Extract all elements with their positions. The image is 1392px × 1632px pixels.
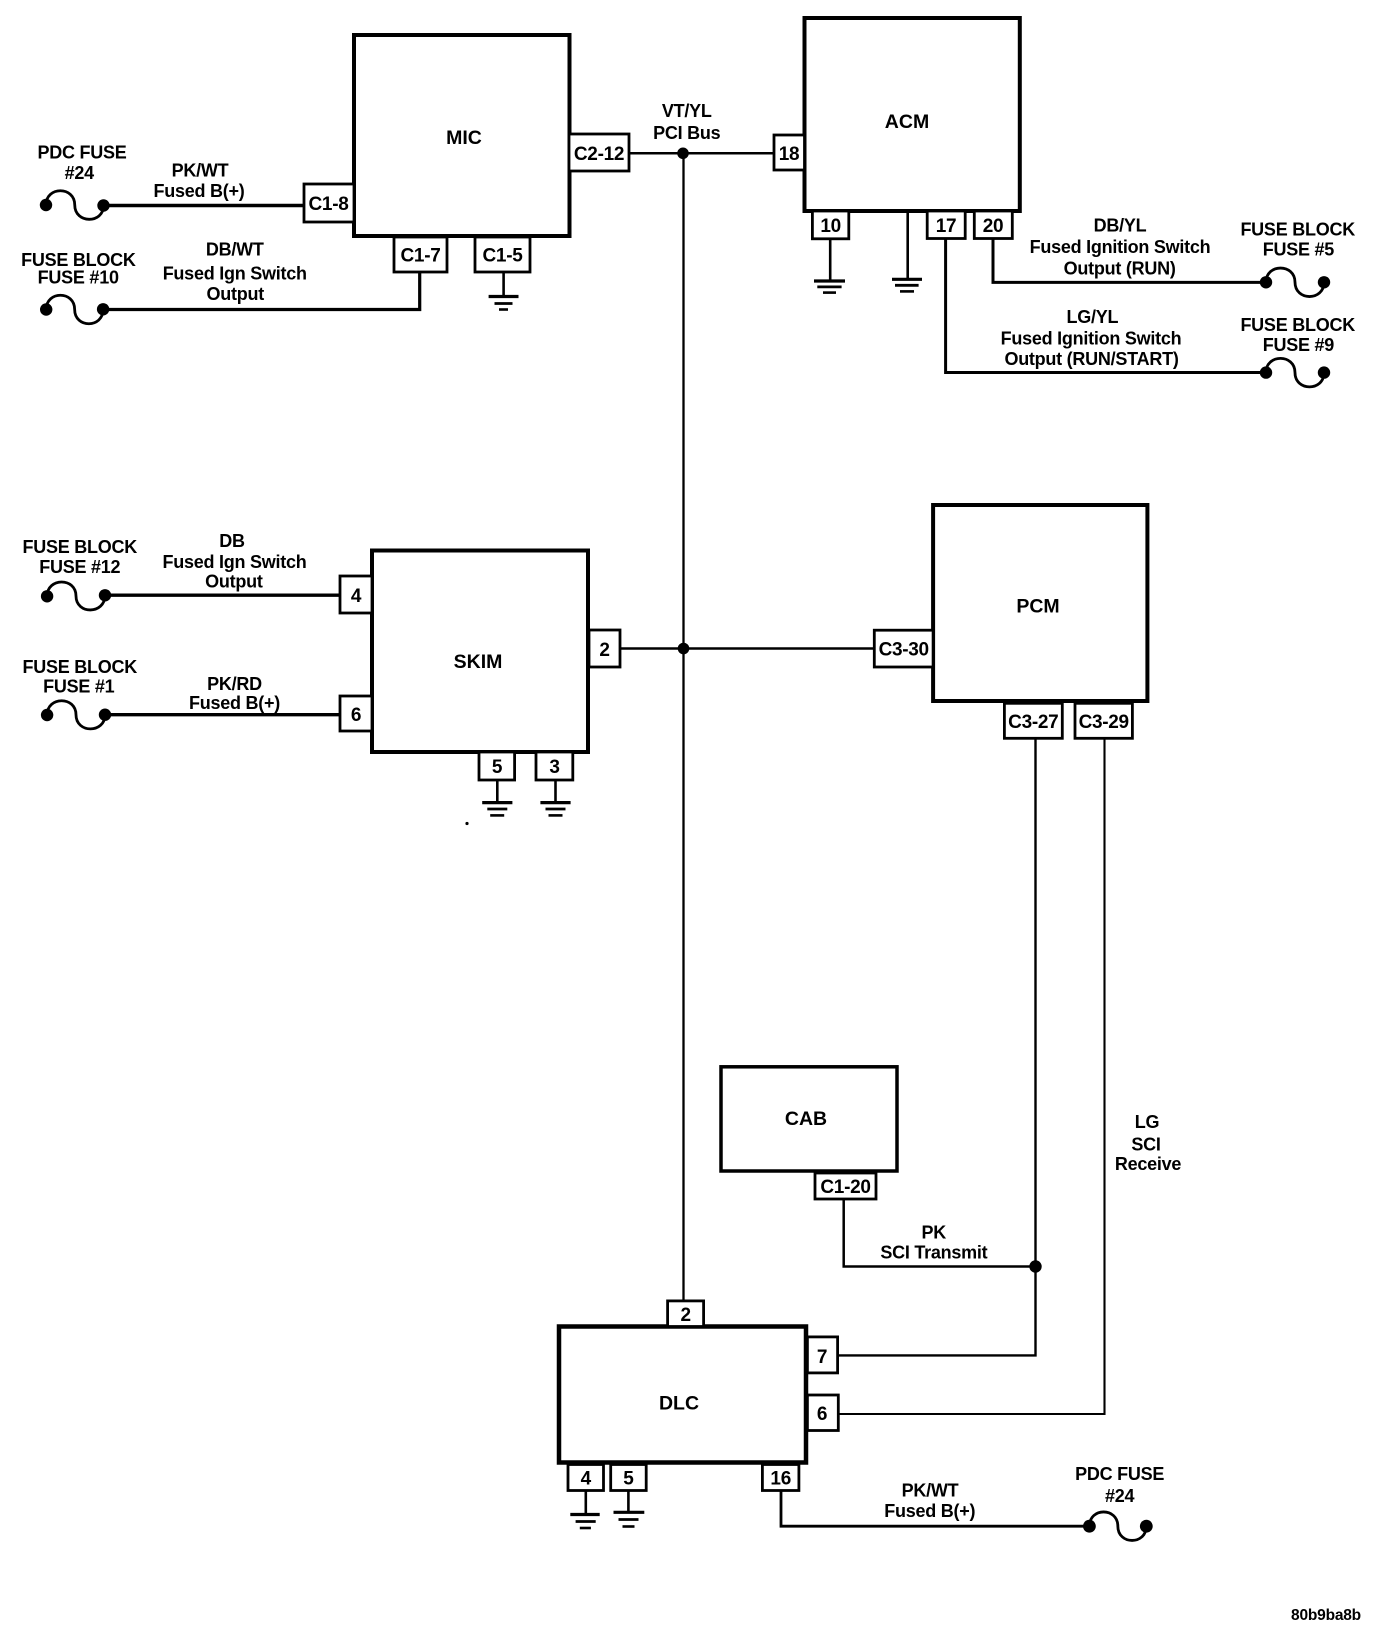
- label PDC FUSE 24 bottom: [1075, 1464, 1164, 1506]
- wire fuse 12 to SKIM pin 4: [105, 594, 340, 597]
- svg-text:PK/RD: PK/RD: [207, 674, 262, 694]
- svg-text:PCM: PCM: [1016, 596, 1059, 618]
- pin 2 of DLC: [668, 1301, 704, 1327]
- svg-text:DB/WT: DB/WT: [206, 240, 264, 260]
- connector C1-8: [304, 184, 354, 222]
- label LG/YL Fused Ignition Switch Output (RUN/START): [1001, 307, 1182, 369]
- svg-text:PDC FUSE: PDC FUSE: [37, 143, 126, 163]
- connector C1-5: [475, 237, 530, 272]
- pin 17: [927, 211, 965, 239]
- label PK/WT Fused B(+) top: [153, 160, 244, 201]
- label DB/WT Fused Ign Switch Output: [163, 240, 307, 305]
- pin 6: [340, 696, 372, 731]
- fuse block 10: [40, 295, 109, 323]
- svg-text:Fused B(+): Fused B(+): [189, 693, 280, 713]
- svg-text:17: 17: [936, 216, 957, 237]
- svg-text:Fused Ignition Switch: Fused Ignition Switch: [1001, 329, 1182, 349]
- wire fuse 1 to SKIM pin 6: [105, 713, 340, 716]
- svg-text:Fused Ign Switch: Fused Ign Switch: [163, 264, 307, 284]
- svg-text:Output (RUN/START): Output (RUN/START): [1004, 349, 1178, 369]
- module SKIM: [372, 551, 588, 753]
- svg-text:FUSE #9: FUSE #9: [1263, 335, 1335, 355]
- fuse PDC 24 bottom: [1083, 1512, 1153, 1541]
- connector C3-30: [874, 630, 933, 667]
- connector C3-29: [1075, 703, 1132, 738]
- svg-text:LG/YL: LG/YL: [1067, 307, 1119, 327]
- label FUSE BLOCK FUSE 5: [1240, 220, 1355, 260]
- connector C2-12: [569, 134, 629, 171]
- junction node at PCI bus top: [677, 148, 689, 160]
- svg-text:FUSE #12: FUSE #12: [39, 557, 120, 577]
- svg-text:Fused B(+): Fused B(+): [884, 1501, 975, 1521]
- svg-text:MIC: MIC: [446, 127, 482, 149]
- svg-text:FUSE #5: FUSE #5: [1263, 240, 1335, 260]
- label PK/RD Fused B(+): [189, 674, 280, 713]
- wire PCI bus vertical: [682, 153, 684, 1301]
- svg-text:#24: #24: [65, 163, 95, 183]
- svg-text:2: 2: [680, 1305, 690, 1326]
- svg-text:4: 4: [351, 586, 362, 607]
- svg-text:C1-8: C1-8: [309, 194, 349, 215]
- label DB Fused Ign Switch Output: [162, 531, 306, 592]
- svg-text:DB/YL: DB/YL: [1094, 216, 1147, 236]
- label FUSE BLOCK FUSE 10: [21, 250, 136, 288]
- svg-text:FUSE BLOCK: FUSE BLOCK: [1240, 315, 1355, 335]
- svg-text:DLC: DLC: [659, 1393, 699, 1415]
- svg-text:FUSE BLOCK: FUSE BLOCK: [23, 657, 138, 677]
- wire fuse 10 to C1-7: [103, 272, 420, 310]
- svg-text:6: 6: [817, 1404, 827, 1425]
- svg-text:4: 4: [581, 1469, 592, 1490]
- label LG SCI Receive: [1115, 1112, 1182, 1174]
- svg-text:10: 10: [820, 216, 841, 237]
- pin 7: [807, 1337, 837, 1373]
- scan speck: [465, 822, 468, 825]
- label PK/WT Fused B(+) bottom: [884, 1481, 975, 1521]
- module PCM: [933, 505, 1147, 701]
- svg-text:SCI Transmit: SCI Transmit: [880, 1242, 987, 1262]
- pin 5 of DLC: [611, 1465, 647, 1491]
- svg-text:6: 6: [351, 705, 361, 726]
- svg-text:Output: Output: [207, 284, 265, 304]
- pin 10: [812, 211, 848, 239]
- label FUSE BLOCK FUSE 9: [1240, 315, 1355, 355]
- fuse block 9: [1260, 358, 1330, 387]
- module DLC: [559, 1327, 806, 1463]
- svg-text:C1-20: C1-20: [820, 1177, 870, 1198]
- svg-text:CAB: CAB: [785, 1108, 827, 1130]
- fuse block 12: [41, 582, 111, 610]
- wire SKIM pin 2 to PCM C3-30: [620, 647, 874, 650]
- wire ACM pin 20 to fuse block 5: [993, 239, 1266, 283]
- junction node at SKIM pin 2: [678, 643, 690, 655]
- svg-text:PCI Bus: PCI Bus: [653, 123, 721, 143]
- fuse block 1: [41, 701, 111, 729]
- label DB/YL Fused Ignition Switch Output (RUN): [1030, 216, 1211, 279]
- svg-text:5: 5: [492, 757, 503, 778]
- pin 6 of DLC: [807, 1395, 838, 1431]
- ground under DLC pin 4: [570, 1491, 599, 1529]
- svg-text:SKIM: SKIM: [454, 651, 503, 673]
- svg-text:18: 18: [779, 144, 800, 165]
- svg-text:Fused Ignition Switch: Fused Ignition Switch: [1030, 237, 1211, 257]
- svg-text:VT/YL: VT/YL: [662, 101, 712, 121]
- svg-text:5: 5: [623, 1469, 634, 1490]
- connector C3-27: [1004, 703, 1062, 738]
- svg-text:C1-7: C1-7: [401, 246, 441, 267]
- ground under ACM case: [892, 211, 922, 291]
- svg-text:SCI: SCI: [1131, 1135, 1160, 1155]
- fuse block 5: [1260, 268, 1330, 297]
- wire C2-12 to pin 18 (PCI bus): [629, 152, 774, 155]
- pin 3: [536, 752, 573, 780]
- svg-text:LG: LG: [1135, 1112, 1160, 1132]
- svg-text:DB: DB: [219, 531, 245, 551]
- ground under DLC pin 5: [614, 1491, 645, 1527]
- svg-text:ACM: ACM: [885, 111, 929, 133]
- module CAB: [721, 1067, 897, 1171]
- ground under ACM pin 10: [814, 239, 845, 293]
- svg-text:PK/WT: PK/WT: [902, 1481, 959, 1501]
- svg-text:FUSE BLOCK: FUSE BLOCK: [1240, 220, 1355, 240]
- pin 2: [589, 630, 620, 667]
- pin 5: [479, 752, 515, 780]
- pin 4: [340, 576, 372, 613]
- svg-text:Receive: Receive: [1115, 1154, 1182, 1174]
- svg-text:PDC FUSE: PDC FUSE: [1075, 1464, 1164, 1484]
- label FUSE BLOCK FUSE 12: [23, 537, 138, 577]
- junction node SCI transmit: [1029, 1260, 1041, 1272]
- wire PCM C3-29 to DLC pin 6: [838, 738, 1104, 1414]
- wire DLC pin 16 to PDC fuse 24: [781, 1491, 1089, 1527]
- ground under C1-5: [489, 272, 519, 310]
- pin 20: [974, 211, 1012, 239]
- pin 18: [774, 135, 805, 170]
- svg-text:2: 2: [599, 640, 609, 661]
- wire PDC fuse 24 to C1-8: [104, 204, 304, 207]
- svg-text:FUSE BLOCK: FUSE BLOCK: [23, 537, 138, 557]
- svg-text:FUSE #1: FUSE #1: [43, 677, 115, 697]
- svg-text:7: 7: [817, 1347, 827, 1368]
- svg-text:C3-27: C3-27: [1008, 712, 1058, 733]
- connector C1-7: [394, 237, 447, 272]
- label PDC FUSE 24 top left: [37, 143, 126, 184]
- pin 4 of DLC: [568, 1465, 604, 1491]
- label PK SCI Transmit: [880, 1222, 987, 1262]
- svg-text:C2-12: C2-12: [574, 144, 624, 165]
- svg-text:FUSE #10: FUSE #10: [38, 268, 119, 288]
- label VT/YL PCI Bus: [653, 101, 721, 143]
- module ACM: [805, 18, 1020, 211]
- svg-text:16: 16: [770, 1469, 791, 1490]
- wire ACM pin 17 to fuse block 9: [946, 239, 1266, 373]
- svg-text:#24: #24: [1105, 1486, 1135, 1506]
- pin 16: [762, 1465, 799, 1491]
- svg-text:PK: PK: [921, 1222, 946, 1242]
- module MIC: [354, 35, 570, 236]
- svg-text:C3-30: C3-30: [879, 640, 929, 661]
- svg-text:3: 3: [549, 757, 559, 778]
- connector C1-20: [815, 1173, 876, 1199]
- svg-text:20: 20: [983, 216, 1004, 237]
- svg-text:C1-5: C1-5: [483, 246, 524, 267]
- svg-text:Output: Output: [205, 572, 263, 592]
- svg-text:PK/WT: PK/WT: [172, 160, 229, 180]
- wire PCM C3-27 to DLC pin 7: [838, 738, 1036, 1355]
- ground under SKIM pin 5: [482, 780, 512, 815]
- svg-text:C3-29: C3-29: [1079, 712, 1129, 733]
- ground under SKIM pin 3: [540, 780, 570, 815]
- svg-text:Fused Ign Switch: Fused Ign Switch: [162, 552, 306, 572]
- wire CAB C1-20 to SCI junction: [844, 1199, 1036, 1267]
- svg-text:80b9ba8b: 80b9ba8b: [1291, 1607, 1361, 1624]
- fuse PDC 24 top left: [40, 191, 110, 220]
- svg-text:Output (RUN): Output (RUN): [1064, 258, 1176, 278]
- label FUSE BLOCK FUSE 1: [23, 657, 138, 697]
- svg-text:Fused B(+): Fused B(+): [153, 181, 244, 201]
